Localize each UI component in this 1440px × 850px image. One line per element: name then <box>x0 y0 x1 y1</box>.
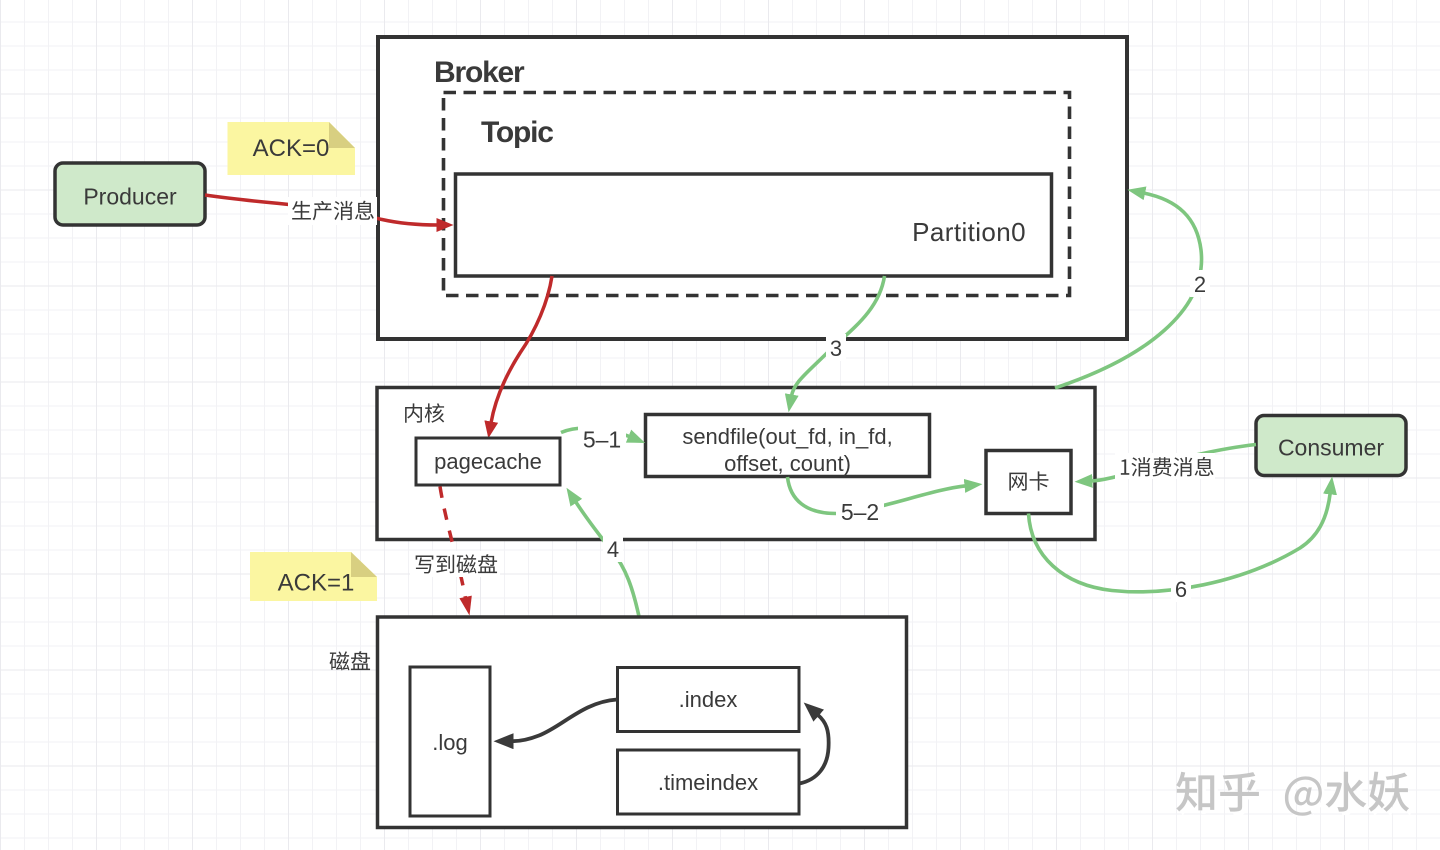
green arrow 5-1 (pagecache -> sendfile) <box>561 428 630 437</box>
box disk (磁盘) <box>378 617 907 828</box>
watermark 知乎 @水妖 <box>1180 775 1413 819</box>
label 磁盘 (disk) <box>330 651 371 670</box>
box NIC (网卡) <box>986 451 1071 514</box>
box .index <box>618 668 800 732</box>
sticky note ACK=1 <box>250 552 377 601</box>
box Topic (dashed) <box>444 93 1070 296</box>
green arrow 5-2 (sendfile -> NIC) <box>788 477 967 514</box>
label bg <box>1115 453 1215 479</box>
label 5-2 <box>836 497 884 524</box>
sticky fold <box>329 122 355 148</box>
black arrow .timeindex -> .index <box>800 715 829 784</box>
label 6 <box>1171 575 1191 602</box>
label 2 <box>1190 270 1210 297</box>
svg-text:.log: .log <box>432 730 467 755</box>
label bg <box>288 197 377 225</box>
label 1消费消息 (consume message) <box>1121 457 1214 477</box>
svg-text:Partition0: Partition0 <box>912 217 1026 247</box>
svg-text:ACK=0: ACK=0 <box>253 135 330 162</box>
svg-text:5–2: 5–2 <box>841 499 879 525</box>
svg-text:Broker: Broker <box>434 56 525 89</box>
black arrow .index -> .log <box>513 700 618 742</box>
red dashed arrow write-to-disk <box>440 487 466 602</box>
box pagecache <box>416 438 560 485</box>
node Consumer <box>1256 416 1406 476</box>
svg-text:offset, count): offset, count) <box>724 451 851 476</box>
label 3 <box>826 334 846 361</box>
green arrow 3 (Partition0 -> sendfile) <box>792 276 885 396</box>
svg-text:3: 3 <box>830 336 842 361</box>
green arrow 6 (NIC -> Consumer) <box>1029 493 1331 592</box>
box kernel (内核) <box>377 388 1095 540</box>
red arrow Partition0 -> pagecache <box>491 276 552 423</box>
box .timeindex <box>618 750 800 814</box>
green arrow 2 (kernel -> Broker) <box>1055 193 1202 388</box>
svg-text:Topic: Topic <box>481 116 553 149</box>
green arrow 1 (Consumer -> NIC) <box>1091 445 1256 482</box>
sticky fold <box>351 552 377 577</box>
box Partition0 <box>456 174 1052 276</box>
red arrow produce message <box>205 195 438 225</box>
svg-text:5–1: 5–1 <box>583 427 621 453</box>
label 4 <box>603 535 623 562</box>
label 5-1 <box>578 425 626 452</box>
svg-text:Consumer: Consumer <box>1278 435 1384 461</box>
svg-text:ACK=1: ACK=1 <box>278 570 355 597</box>
label 写到磁盘 (write to disk) <box>416 554 497 573</box>
label 内核 (kernel) <box>405 403 444 422</box>
label bg <box>410 551 500 577</box>
svg-text:Producer: Producer <box>83 184 177 210</box>
label 生产消息 (produce message) <box>292 201 374 221</box>
svg-text:pagecache: pagecache <box>434 449 542 474</box>
sticky note ACK=0 <box>228 122 356 175</box>
box Broker <box>378 37 1127 339</box>
svg-text:6: 6 <box>1175 577 1187 602</box>
svg-text:.timeindex: .timeindex <box>658 770 758 795</box>
node Producer <box>55 163 205 225</box>
box sendfile <box>646 415 930 477</box>
box .log <box>410 667 490 816</box>
svg-text:.index: .index <box>679 687 738 712</box>
red arrowhead <box>459 596 471 616</box>
svg-text:2: 2 <box>1194 272 1206 297</box>
svg-text:4: 4 <box>607 537 619 562</box>
svg-text:sendfile(out_fd, in_fd,: sendfile(out_fd, in_fd, <box>682 424 892 449</box>
label 网卡 (NIC) <box>1009 471 1048 490</box>
green arrow 4 (disk -> pagecache) <box>576 502 640 617</box>
